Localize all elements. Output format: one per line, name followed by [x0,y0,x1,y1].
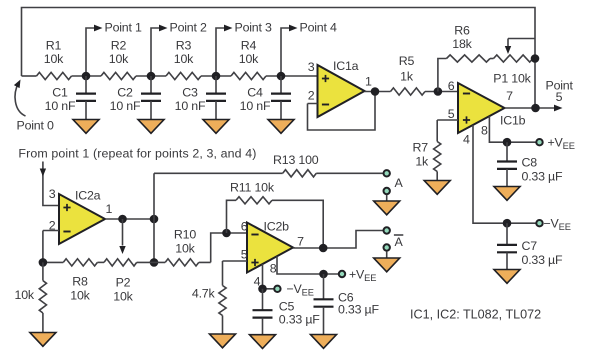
svg-text:0.33 µF: 0.33 µF [522,253,563,267]
svg-text:Point 3: Point 3 [235,21,272,35]
svg-text:IC1a: IC1a [333,59,359,73]
svg-text:Point 0: Point 0 [17,119,54,133]
svg-text:R13 100: R13 100 [273,153,319,167]
svg-text:10k: 10k [113,290,133,304]
svg-text:R4: R4 [241,39,257,53]
svg-text:R3: R3 [176,39,192,53]
svg-text:0.33 µF: 0.33 µF [279,313,320,327]
svg-text:4: 4 [463,133,470,147]
svg-text:10k: 10k [175,242,195,256]
svg-text:10 nF: 10 nF [240,99,271,113]
svg-text:3: 3 [308,60,315,74]
svg-text:3: 3 [49,187,56,201]
svg-text:R10: R10 [174,228,196,242]
svg-text:5: 5 [556,90,563,104]
svg-text:From point 1 (repeat for point: From point 1 (repeat for points 2, 3, an… [18,147,256,161]
svg-text:1k: 1k [415,155,429,169]
svg-text:8: 8 [270,262,277,276]
svg-text:4.7k: 4.7k [192,287,216,301]
svg-text:2: 2 [308,89,315,103]
svg-text:10k: 10k [109,52,129,66]
svg-text:R1: R1 [46,39,62,53]
svg-text:10k: 10k [239,52,259,66]
svg-text:IC2a: IC2a [75,189,101,203]
svg-text:1k: 1k [400,70,414,84]
svg-text:A: A [395,235,404,249]
svg-text:1: 1 [365,75,372,89]
svg-text:8: 8 [481,124,488,138]
svg-text:5: 5 [241,248,248,262]
svg-text:R2: R2 [111,39,127,53]
svg-text:5: 5 [448,107,455,121]
svg-text:6: 6 [241,220,248,234]
svg-text:IC1, IC2: TL082, TL072: IC1, IC2: TL082, TL072 [410,308,541,322]
svg-text:IC1b: IC1b [500,114,526,128]
svg-text:Point 1: Point 1 [105,21,142,35]
svg-text:10k: 10k [44,52,64,66]
svg-text:7: 7 [506,89,513,103]
svg-text:0.33 µF: 0.33 µF [338,303,379,317]
svg-text:1: 1 [106,202,113,216]
svg-text:Point 4: Point 4 [300,21,337,35]
svg-text:7: 7 [297,235,304,249]
svg-text:6: 6 [448,79,455,93]
svg-text:R6: R6 [454,24,470,38]
svg-text:18k: 18k [452,37,472,51]
svg-text:Point 2: Point 2 [170,21,207,35]
svg-text:10 nF: 10 nF [45,99,76,113]
svg-text:10k: 10k [174,52,194,66]
svg-text:C4: C4 [247,86,263,100]
svg-text:R7: R7 [413,141,429,155]
svg-text:C8: C8 [522,156,538,170]
svg-text:C1: C1 [52,86,68,100]
svg-text:C2: C2 [117,86,133,100]
svg-text:C3: C3 [182,86,198,100]
svg-text:R8: R8 [72,275,88,289]
svg-text:10k: 10k [15,288,35,302]
svg-text:P2: P2 [116,276,131,290]
svg-text:P1 10k: P1 10k [493,72,531,86]
svg-text:10k: 10k [70,289,90,303]
svg-text:C7: C7 [522,239,538,253]
svg-text:R5: R5 [399,54,415,68]
svg-text:R11 10k: R11 10k [230,181,275,195]
svg-text:10 nF: 10 nF [175,99,206,113]
svg-text:0.33 µF: 0.33 µF [522,170,563,184]
svg-text:IC2b: IC2b [264,220,290,234]
svg-text:C5: C5 [279,300,295,314]
svg-text:10 nF: 10 nF [110,99,141,113]
svg-text:A: A [395,176,404,190]
